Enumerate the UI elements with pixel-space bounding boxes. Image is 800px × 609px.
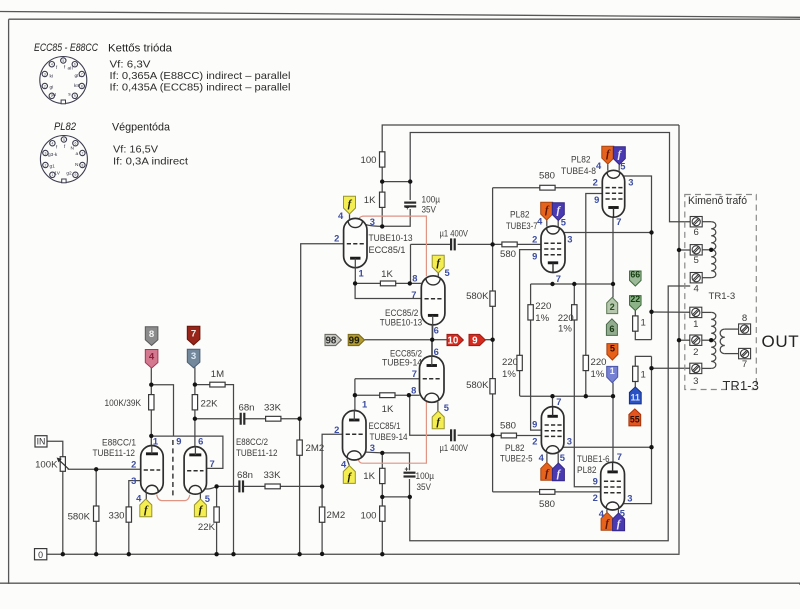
- svg-text:220: 220: [558, 313, 574, 324]
- svg-text:33K: 33K: [264, 403, 282, 414]
- TUBE1-6 heater pin leads: [607, 510, 619, 513]
- resistor 1K cathode b: [380, 393, 395, 398]
- half1 pin1/pin4 leads: [146, 446, 152, 500]
- svg-text:35V: 35V: [422, 205, 437, 216]
- junction ground 100: [380, 552, 384, 556]
- red heater wire input tubes: [157, 495, 190, 501]
- svg-text:7: 7: [742, 359, 747, 370]
- svg-text:5: 5: [620, 507, 625, 518]
- capacitor C 100u35V upper column: [382, 182, 410, 227]
- svg-text:3: 3: [693, 376, 698, 387]
- svg-text:4: 4: [537, 215, 543, 226]
- svg-text:98: 98: [325, 336, 336, 347]
- svg-text:4: 4: [539, 452, 545, 463]
- f tag TUBE2-5 blue: [552, 463, 564, 481]
- svg-text:1K: 1K: [381, 269, 393, 280]
- wire: TUBE2-5 pin7: [552, 396, 554, 406]
- svg-text:100K: 100K: [35, 459, 58, 470]
- svg-text:1: 1: [693, 319, 698, 330]
- wire: coupling row1 68n/33K: [195, 418, 301, 420]
- svg-text:ECC85 - E88CC: ECC85 - E88CC: [34, 42, 98, 54]
- junction node 98/99: [430, 338, 434, 342]
- resistor 580K lower: [490, 379, 495, 394]
- svg-text:TUBE9-14: TUBE9-14: [370, 432, 409, 443]
- svg-text:2: 2: [593, 176, 598, 187]
- tag 5 orange: [607, 344, 618, 360]
- tag 11 blue: [629, 387, 641, 404]
- junction terminal1 tap: [649, 310, 653, 314]
- f tag TUBE3-7 orange: [541, 202, 553, 220]
- svg-text:If: 0,3A indirect: If: 0,3A indirect: [113, 157, 188, 168]
- svg-text:6: 6: [609, 324, 614, 334]
- wire: terminal 3 stub: [652, 367, 691, 369]
- TUBE4-8 heater pin leads: [608, 164, 619, 171]
- svg-text:4: 4: [596, 160, 602, 171]
- tag 8 gray: [145, 327, 158, 346]
- node: B+ dropper column x=382: [381, 167, 383, 227]
- tag 7 dark red: [187, 326, 200, 345]
- shield pin 9 dashed separator: [172, 440, 174, 498]
- svg-text:55: 55: [630, 415, 640, 425]
- wire: 1K cathode row TUBE10-13 + pin8: [355, 282, 421, 284]
- f tag TUBE1-6 blue: [613, 513, 625, 531]
- svg-text:a: a: [76, 152, 79, 157]
- resistor 1K cathode a: [380, 281, 395, 286]
- svg-text:100µ: 100µ: [416, 471, 435, 482]
- socket diagram PL82: [40, 136, 87, 183]
- junction terminal3 tap: [649, 366, 653, 370]
- svg-text:7: 7: [411, 289, 416, 300]
- junction cathode bus b: [572, 282, 576, 286]
- wire: ground bus: [47, 552, 679, 555]
- wire: 220b column: [573, 284, 575, 447]
- tag 4 pink: [145, 350, 158, 369]
- svg-text:1: 1: [362, 398, 367, 409]
- capacitor 100u 35V upper: [404, 202, 416, 204]
- junction screen bus bottom: [490, 433, 494, 437]
- terminal 2 screw: [690, 335, 702, 345]
- svg-text:g2: g2: [66, 171, 72, 177]
- resistor 2M2 upper: [297, 440, 302, 455]
- svg-text:TUBE10-13: TUBE10-13: [369, 233, 413, 244]
- wire: t1 to coil2: [702, 311, 711, 313]
- svg-text:5: 5: [561, 216, 566, 227]
- resistor 1K (top): [380, 192, 385, 207]
- terminal 3 screw: [690, 363, 702, 373]
- svg-text:4: 4: [149, 352, 155, 363]
- junction pin1 TUBE10-13: [353, 281, 357, 285]
- svg-text:9: 9: [532, 419, 537, 430]
- svg-text:TUBE11-12: TUBE11-12: [93, 448, 136, 459]
- resistor 22K upper: [192, 395, 197, 410]
- svg-text:35V: 35V: [417, 482, 432, 493]
- svg-text:2: 2: [334, 233, 339, 244]
- svg-text:Végpentóda: Végpentóda: [112, 122, 170, 134]
- svg-text:580: 580: [539, 171, 555, 182]
- coil secondary-side TR winding upper: [711, 312, 716, 340]
- junction terminal2 tap: [677, 338, 681, 342]
- terminal 8 screw: [739, 324, 751, 334]
- socket diagram ECC85/E88CC: [40, 57, 87, 104]
- svg-text:1: 1: [153, 435, 158, 446]
- wire: 98/99 to node: [365, 339, 433, 341]
- junction tag3 node: [193, 382, 197, 386]
- half2 pin6/pin5 leads: [195, 447, 200, 499]
- resistor 100K/39K: [149, 395, 154, 410]
- svg-text:580K: 580K: [68, 511, 91, 522]
- wire: pin6 column between middle triodes: [431, 316, 433, 364]
- svg-text:7: 7: [81, 151, 83, 155]
- svg-text:3: 3: [567, 435, 572, 446]
- potentiometer 100K body: [60, 457, 65, 472]
- svg-text:4: 4: [341, 459, 347, 470]
- svg-text:8: 8: [742, 313, 747, 324]
- svg-text:1: 1: [610, 366, 615, 376]
- junction coil2 tap: [709, 338, 713, 342]
- resistor 1 lower: [633, 366, 638, 381]
- pentode PL82 TUBE1-6 envelope: [601, 462, 625, 510]
- wire: 1K3 column: [381, 453, 383, 497]
- svg-text:9: 9: [594, 194, 599, 205]
- pentode PL82 TUBE4-8 envelope: [602, 170, 624, 217]
- svg-text:gII: gII: [75, 73, 80, 79]
- wire: 580b row to TUBE3-7 pin2: [493, 243, 542, 245]
- wire: half2 cathode stub: [205, 486, 217, 489]
- dashed box Kimeno trafo: [685, 195, 757, 390]
- wire: u1 cap2 row: [410, 396, 493, 436]
- svg-text:3: 3: [628, 176, 633, 187]
- svg-text:5: 5: [560, 452, 565, 463]
- f tag TUBE3-7 blue: [552, 203, 564, 221]
- svg-text:2: 2: [334, 424, 339, 435]
- wire: t3 to coil2: [702, 367, 711, 369]
- junction ground pot: [61, 552, 65, 556]
- svg-text:4: 4: [599, 508, 605, 519]
- svg-text:33K: 33K: [263, 470, 281, 481]
- svg-text:8: 8: [149, 329, 155, 340]
- resistor 1K cathode c: [380, 468, 385, 483]
- svg-text:ECC85/1: ECC85/1: [369, 421, 401, 432]
- svg-text:6: 6: [434, 346, 439, 357]
- svg-text:2: 2: [693, 347, 698, 358]
- svg-text:3: 3: [44, 72, 46, 76]
- IN terminal box: [35, 436, 47, 447]
- junction cathode half2: [214, 484, 218, 488]
- wire: TUBE9-14 grid feed: [322, 434, 343, 507]
- triode ECC85/2 TUBE10-13 envelope: [421, 276, 445, 325]
- triode ECC85/1 TUBE9-14 envelope: [343, 411, 367, 461]
- svg-text:TUBE4-8: TUBE4-8: [561, 166, 596, 177]
- wire: tag3 row to 1M: [195, 385, 234, 555]
- resistor 580 a (TUBE4-8 grid): [540, 185, 555, 190]
- junction coil1 tap: [709, 248, 713, 252]
- resistor 330: [126, 507, 131, 522]
- svg-text:Kimenő trafó: Kimenő trafó: [688, 195, 747, 207]
- junction cathode bus e: [584, 394, 588, 398]
- TUBE10-13 pin1/pin4 leads: [350, 214, 356, 284]
- triode ECC85/1 TUBE10-13 envelope: [344, 218, 367, 267]
- ECC85/2 TUBE10-13 pin6/pin5 leads: [433, 270, 439, 340]
- junction cathode bus c: [611, 282, 615, 286]
- wire: terminal 2 stub: [679, 339, 690, 341]
- terminal 1 screw: [690, 307, 702, 317]
- svg-text:N: N: [75, 162, 79, 168]
- coil primary TR1 upper half: [711, 222, 716, 250]
- resistor 220 1% c: [517, 355, 522, 370]
- wire: tag3 feed column + 22K: [194, 367, 196, 446]
- svg-text:9: 9: [176, 435, 181, 446]
- junction ground 22K: [214, 552, 218, 556]
- wire: t4 to coil1: [702, 277, 711, 279]
- svg-text:100: 100: [360, 155, 376, 166]
- svg-text:580: 580: [539, 499, 555, 510]
- red heater wire top: [359, 216, 427, 276]
- potentiometer arrow: [58, 459, 68, 469]
- svg-text:6: 6: [74, 63, 76, 67]
- svg-text:aI: aI: [52, 92, 56, 98]
- svg-text:TUBE11-12: TUBE11-12: [236, 448, 278, 459]
- terminal 4 screw: [690, 273, 702, 283]
- wire: pot bottom to ground: [62, 471, 64, 554]
- svg-text:7: 7: [556, 396, 561, 407]
- svg-text:TUBE1-6: TUBE1-6: [577, 454, 610, 465]
- svg-text:1: 1: [641, 369, 646, 380]
- junction ground 1M: [231, 552, 235, 556]
- svg-text:If: 0,435A (ECC85) indirect –: If: 0,435A (ECC85) indirect – parallel: [110, 83, 291, 94]
- svg-text:8: 8: [411, 384, 416, 395]
- svg-text:0: 0: [38, 550, 43, 560]
- f tag yellow TUBE10-13: [344, 196, 356, 214]
- resistor 580 c (TUBE2-5 grid): [501, 433, 516, 438]
- wire: 2M2b to ground: [321, 520, 323, 554]
- svg-text:220: 220: [502, 357, 518, 368]
- svg-text:kI: kI: [50, 74, 54, 80]
- svg-text:PL82: PL82: [571, 154, 591, 165]
- svg-text:µ1 400V: µ1 400V: [440, 443, 469, 454]
- resistor 100 lower: [380, 506, 385, 521]
- wire rail2 to terminal 6: [410, 133, 690, 222]
- wire: TUBE10-13 pin3 node: [362, 222, 383, 226]
- f tag yellow ECC85/2 TUBE10-13: [432, 255, 444, 273]
- svg-text:g1: g1: [50, 164, 56, 170]
- svg-text:11: 11: [631, 393, 640, 403]
- svg-text:2: 2: [532, 435, 537, 446]
- svg-text:g3-k: g3-k: [48, 152, 58, 158]
- wire: 580K-input column: [95, 469, 97, 554]
- wire: u1 cap1 row: [411, 244, 493, 264]
- junction wiper node: [94, 467, 98, 471]
- ECC85/2 TUBE9-14 pin6/pin5 leads: [432, 340, 438, 411]
- junction screen bus mid: [490, 338, 494, 342]
- junction B+ dropper: [380, 179, 384, 183]
- svg-text:68n: 68n: [238, 403, 254, 414]
- svg-text:580K: 580K: [466, 380, 489, 391]
- svg-text:99: 99: [349, 336, 360, 347]
- wire: tags column TUBE4-8 pin7: [612, 217, 614, 298]
- svg-text:9: 9: [74, 94, 76, 98]
- svg-text:9: 9: [593, 475, 598, 486]
- svg-text:68n: 68n: [237, 470, 253, 481]
- wire: TUBE4-8 pin3: [623, 176, 652, 340]
- capacitor 68n upper: [240, 413, 242, 425]
- svg-text:1: 1: [359, 268, 364, 279]
- svg-text:1M: 1M: [211, 369, 224, 380]
- wire: node to tags 10/9 and bus: [432, 339, 447, 341]
- svg-text:OUT: OUT: [762, 332, 800, 351]
- resistor 33K upper: [266, 416, 281, 421]
- wire: 580d row to TUBE1-6 pin2: [493, 491, 601, 493]
- svg-text:2: 2: [532, 233, 537, 244]
- svg-text:2: 2: [610, 302, 615, 312]
- junction pin8 node: [408, 281, 412, 285]
- svg-text:If: 0,365A (E88CC) indirect –: If: 0,365A (E88CC) indirect – parallel: [110, 71, 291, 82]
- svg-text:PL82: PL82: [510, 209, 530, 220]
- svg-text:8: 8: [81, 163, 83, 167]
- terminal 5 screw: [690, 245, 702, 255]
- terminal 7 screw: [739, 348, 751, 358]
- svg-text:5: 5: [445, 267, 450, 278]
- capacitor u1 400V lower: [450, 429, 452, 441]
- junction ground 330: [127, 552, 131, 556]
- svg-text:2M2: 2M2: [306, 443, 325, 454]
- wire: coil3 to t8: [725, 328, 739, 330]
- f tag yellow E88CC half2: [194, 499, 206, 517]
- wire: resistor 1b loop: [635, 356, 651, 387]
- svg-text:TUBE9-14: TUBE9-14: [382, 358, 423, 369]
- wire: screen bus x=492.6: [492, 188, 494, 492]
- svg-text:TR1-3: TR1-3: [709, 291, 736, 302]
- svg-text:N: N: [71, 146, 75, 152]
- tag 2 light green: [607, 297, 618, 313]
- svg-text:kII: kII: [74, 83, 79, 89]
- svg-text:3: 3: [370, 216, 375, 227]
- tag 10: [447, 334, 463, 345]
- svg-text:5: 5: [444, 402, 449, 413]
- svg-text:IN: IN: [37, 437, 46, 447]
- svg-text:4: 4: [51, 142, 53, 146]
- resistor 220 1% d: [583, 355, 588, 370]
- svg-text:ECC85/1: ECC85/1: [369, 245, 406, 256]
- svg-text:8: 8: [81, 84, 83, 88]
- junction coupling row2 right: [320, 484, 324, 488]
- svg-text:7: 7: [81, 72, 83, 76]
- junction ground 2M2a: [297, 552, 301, 556]
- resistor 2M2 lower: [319, 507, 324, 522]
- tag 3 slate: [187, 349, 200, 368]
- wire: 2M2a column: [299, 419, 301, 554]
- tag 9: [469, 334, 485, 345]
- wire: cathode bus lower y=396.2: [520, 395, 613, 397]
- wire: right common line to terminals 5,2 and ground: [678, 125, 680, 553]
- svg-text:4: 4: [338, 210, 344, 221]
- wire: tag4 to pin9 link: [151, 385, 173, 436]
- svg-text:2M2: 2M2: [327, 510, 346, 521]
- junction tag4 node: [149, 383, 153, 387]
- wire: IN to pot: [47, 441, 63, 457]
- wire: junction row y=181.6: [382, 181, 410, 183]
- wire: cathode 330 column: [129, 481, 141, 555]
- svg-text:6: 6: [74, 142, 76, 146]
- resistor 22K lower: [214, 507, 219, 522]
- resistor 33K lower: [265, 484, 280, 489]
- wire: t6 to coil1: [702, 221, 711, 223]
- wire: grid feed down to coupling row1: [301, 244, 344, 419]
- svg-text:5: 5: [205, 493, 210, 504]
- svg-text:5: 5: [694, 255, 699, 266]
- terminal 6 screw: [690, 217, 702, 227]
- svg-text:7: 7: [191, 328, 196, 339]
- svg-text:E88CC/1: E88CC/1: [102, 437, 136, 448]
- 0 terminal box: [35, 549, 47, 560]
- svg-text:1K: 1K: [363, 471, 375, 482]
- wire: T9-14 pin8 row + 1K row: [355, 394, 420, 396]
- svg-text:66: 66: [630, 269, 640, 279]
- svg-text:PL82: PL82: [54, 121, 76, 133]
- E88CC/2 TUBE11-12 half2 envelope: [184, 447, 206, 495]
- tag 55 orange: [629, 409, 641, 426]
- svg-text:2: 2: [131, 458, 136, 469]
- resistor 1M: [210, 382, 225, 387]
- svg-text:2: 2: [593, 492, 598, 503]
- wire: x=410.5 to pin8 dot: [410, 264, 412, 283]
- wire: anode link box E88CC: [151, 436, 223, 468]
- wire: terminal 1 stub: [652, 311, 690, 313]
- wire: cathode row lower: [382, 496, 410, 498]
- wire: TUBE3-7 pin3 row: [564, 232, 652, 234]
- f tag yellow E88CC half1: [140, 499, 152, 517]
- svg-text:µ1 400V: µ1 400V: [440, 228, 469, 239]
- page scan edge line top: [0, 12, 800, 18]
- svg-text:220: 220: [591, 357, 607, 368]
- resistor 220 1% a: [528, 305, 533, 320]
- junction ground 2M2b: [320, 552, 324, 556]
- svg-text:330: 330: [108, 511, 124, 522]
- tag 1 blue: [607, 366, 618, 382]
- svg-text:580K: 580K: [466, 291, 489, 302]
- tag 99: [348, 334, 364, 345]
- junction pin1 TUBE9-14: [353, 393, 357, 397]
- wire: T9-14(lower) pin3 row: [363, 452, 409, 470]
- svg-text:7: 7: [617, 451, 622, 462]
- capacitor 100u 35V lower: [404, 472, 416, 474]
- svg-text:3: 3: [370, 442, 375, 453]
- junction cathode bus a: [550, 282, 554, 286]
- svg-text:aII: aII: [68, 66, 73, 72]
- svg-text:TUBE10-13: TUBE10-13: [380, 318, 422, 329]
- svg-text:22: 22: [630, 294, 640, 304]
- svg-text:5: 5: [62, 59, 64, 63]
- junction pin3 TUBE10-13: [380, 224, 384, 228]
- resistor 1 upper: [633, 316, 638, 331]
- wire: 580a row to TUBE4-8 pin2: [493, 187, 602, 189]
- svg-text:Vf: 16,5V: Vf: 16,5V: [113, 145, 158, 156]
- tag 22 green: [630, 296, 642, 311]
- resistor 580 d (TUBE1-6 grid): [540, 490, 555, 495]
- svg-text:22K: 22K: [201, 398, 219, 409]
- TUBE3-7 heater pin leads: [547, 220, 558, 226]
- svg-text:1K: 1K: [364, 195, 376, 206]
- wire: TUBE1-6 pin3: [623, 356, 652, 503]
- junction cathode bus f: [611, 394, 615, 398]
- svg-text:4: 4: [51, 63, 53, 67]
- E88CC/1 TUBE11-12 half1 envelope: [141, 446, 164, 495]
- tag 6 green: [606, 319, 617, 336]
- svg-text:5: 5: [63, 138, 65, 142]
- wire: TUBE3-7 pin9 to 220c: [520, 250, 541, 396]
- tag 66 green: [630, 271, 642, 286]
- junction cathode row lower b: [408, 495, 412, 499]
- svg-text:1%: 1%: [535, 313, 549, 324]
